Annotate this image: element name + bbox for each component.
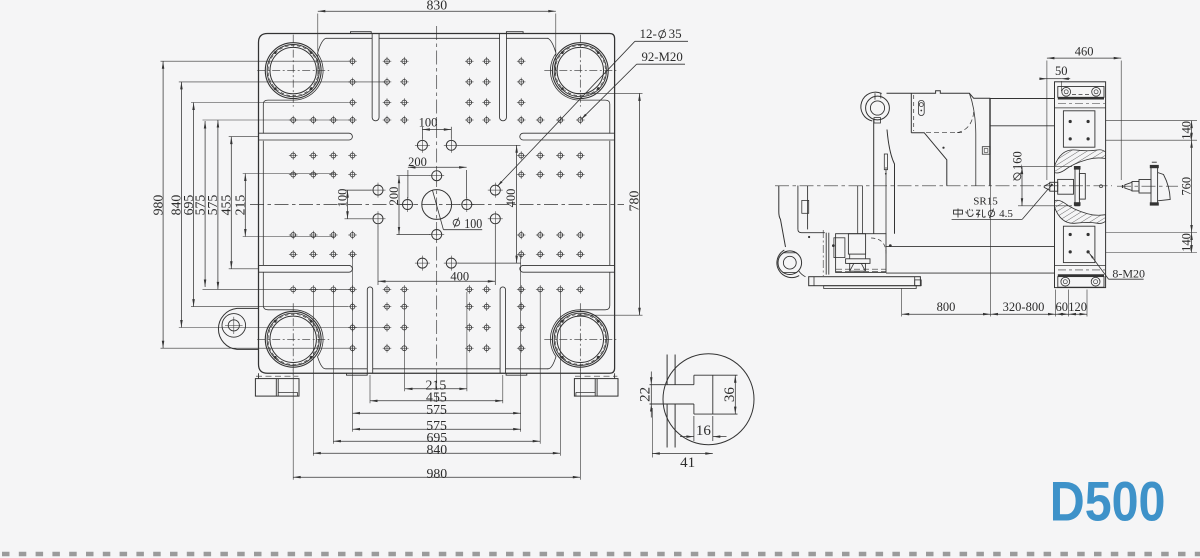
svg-text:840: 840 [426, 442, 447, 457]
svg-text:980: 980 [426, 466, 447, 481]
svg-text:460: 460 [1075, 45, 1094, 59]
svg-text:800: 800 [937, 300, 956, 314]
svg-text:120: 120 [1068, 300, 1087, 314]
svg-text:200: 200 [408, 155, 427, 169]
svg-text:830: 830 [426, 0, 447, 13]
svg-text:D500: D500 [1050, 471, 1166, 533]
svg-text:36: 36 [722, 387, 738, 403]
svg-text:320-800: 320-800 [1003, 300, 1045, 314]
svg-text:400: 400 [450, 269, 469, 283]
svg-text:12-: 12- [640, 26, 657, 41]
svg-text:215: 215 [233, 195, 248, 216]
svg-text:35: 35 [669, 26, 682, 41]
svg-text:400: 400 [504, 189, 518, 208]
svg-text:455: 455 [219, 195, 234, 216]
svg-text:980: 980 [150, 195, 165, 216]
svg-text:50: 50 [1055, 64, 1068, 78]
svg-text:160: 160 [1010, 151, 1024, 170]
svg-text:SR15: SR15 [973, 195, 998, 207]
svg-text:41: 41 [680, 455, 695, 471]
svg-text:8-M20: 8-M20 [1112, 267, 1145, 281]
svg-text:780: 780 [626, 191, 641, 212]
svg-text:140: 140 [1179, 121, 1193, 140]
svg-text:92-M20: 92-M20 [642, 50, 683, 64]
svg-text:760: 760 [1179, 177, 1193, 196]
svg-text:100: 100 [335, 189, 349, 208]
svg-text:60: 60 [1056, 300, 1069, 314]
svg-text:140: 140 [1179, 233, 1193, 252]
svg-text:22: 22 [638, 387, 654, 402]
svg-text:4.5: 4.5 [999, 208, 1013, 220]
svg-text:100: 100 [464, 216, 482, 231]
svg-text:575: 575 [426, 402, 447, 417]
svg-text:100: 100 [419, 115, 438, 129]
svg-text:16: 16 [696, 423, 712, 439]
svg-text:200: 200 [387, 187, 401, 206]
